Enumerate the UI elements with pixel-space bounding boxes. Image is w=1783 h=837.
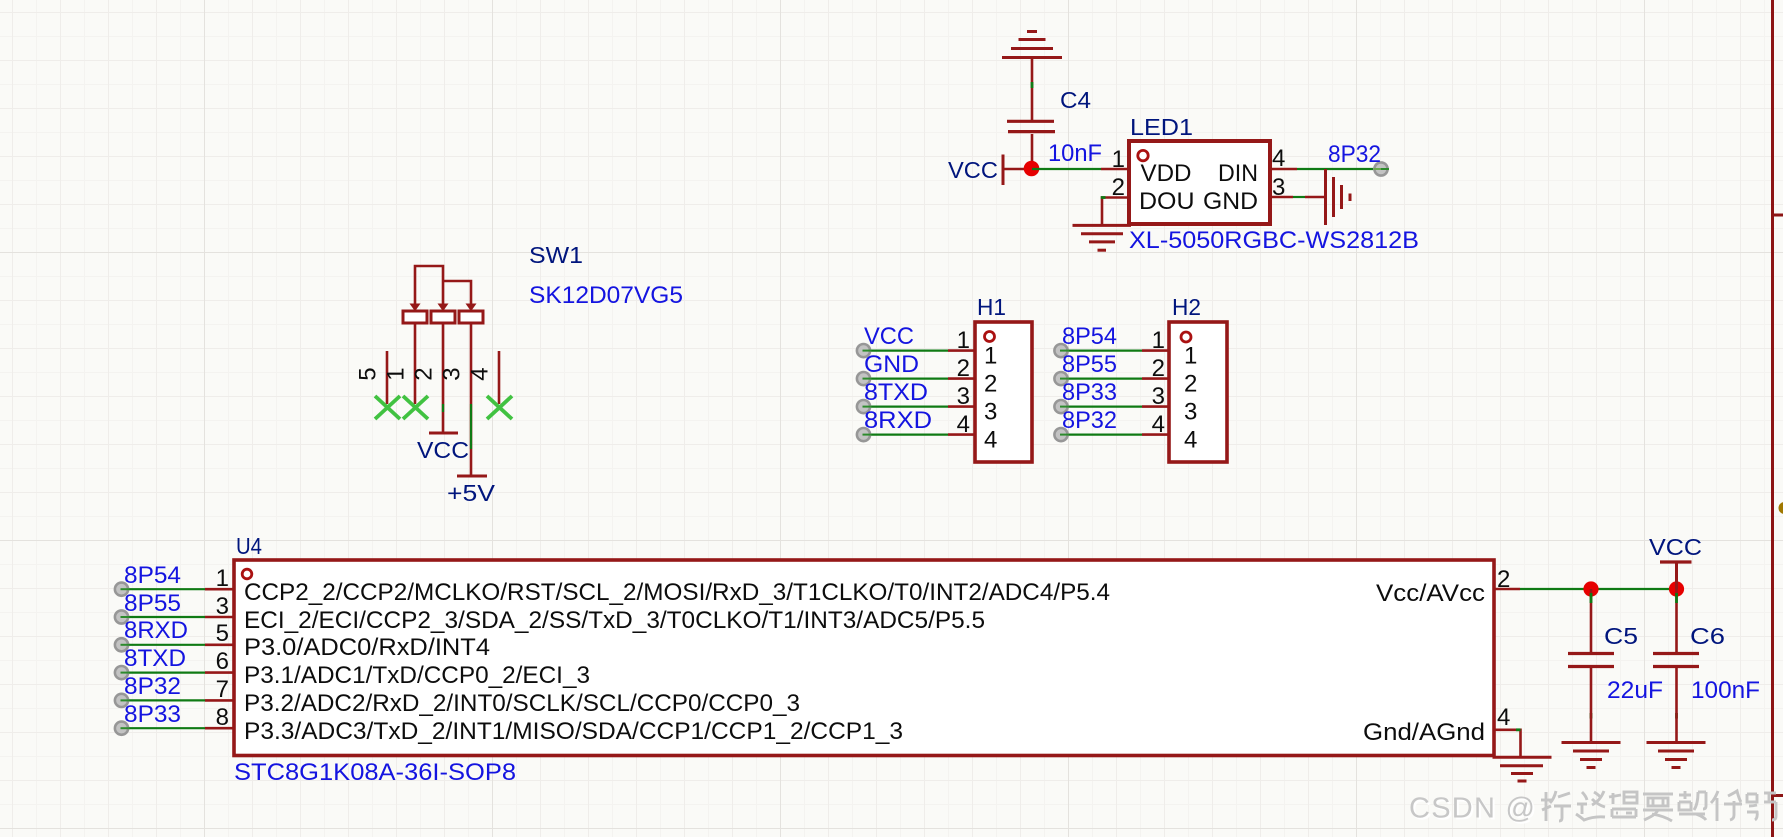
svg-text:8P55: 8P55 bbox=[1062, 351, 1117, 378]
net label 8P32 (U4-7) bbox=[124, 673, 181, 700]
svg-text:8: 8 bbox=[216, 704, 229, 731]
svg-text:4: 4 bbox=[1152, 411, 1165, 438]
label 10nF bbox=[1048, 140, 1102, 167]
SW1 pin number 1 bbox=[383, 367, 410, 380]
svg-text:4: 4 bbox=[984, 427, 997, 454]
svg-text:8P33: 8P33 bbox=[124, 701, 181, 728]
wire LED1 pin2 to ground bbox=[1101, 198, 1129, 226]
svg-text:5: 5 bbox=[216, 620, 229, 647]
label H1 bbox=[977, 294, 1006, 320]
H2 pin 1 wire 8P54 bbox=[1054, 344, 1169, 357]
label C6 bbox=[1690, 623, 1725, 649]
svg-text:8RXD: 8RXD bbox=[864, 407, 932, 434]
svg-text:6: 6 bbox=[216, 648, 229, 675]
hanzi 折 bbox=[1541, 791, 1571, 821]
svg-text:8TXD: 8TXD bbox=[864, 379, 928, 406]
svg-text:1: 1 bbox=[216, 565, 229, 592]
SW1 pin number 3 bbox=[439, 367, 466, 380]
H2 pin 2 wire 8P55 bbox=[1054, 372, 1169, 385]
svg-text:3: 3 bbox=[439, 367, 466, 380]
U4 pin name Vcc/AVcc bbox=[1376, 580, 1485, 607]
svg-text:8P55: 8P55 bbox=[124, 590, 181, 617]
H1 pin number 2 outer bbox=[957, 355, 970, 382]
U4 pin number 1 bbox=[216, 565, 229, 592]
SW1 pin number 5 bbox=[355, 367, 382, 380]
svg-text:8P32: 8P32 bbox=[1328, 141, 1381, 168]
pin name VDD bbox=[1141, 160, 1192, 187]
U4 pin number 2 bbox=[1497, 566, 1510, 593]
SW1 pin 3 wire to +5V bbox=[470, 323, 473, 476]
svg-text:7: 7 bbox=[216, 676, 229, 703]
net label GND (H1-2) bbox=[864, 351, 919, 378]
SW1 pin 2 wire to VCC bbox=[442, 323, 445, 433]
header H2 bbox=[1169, 322, 1227, 462]
svg-text:2: 2 bbox=[411, 367, 438, 380]
port VCC (left of C4 junction) bbox=[948, 155, 1032, 186]
pin name DOU bbox=[1139, 188, 1195, 215]
U4 pin name row 5 bbox=[244, 690, 800, 717]
hanzi 码 bbox=[1747, 793, 1776, 820]
H1 pin number 3 inner bbox=[984, 399, 997, 426]
U4 pin number 5 bbox=[216, 620, 229, 647]
SW1 pin number 2 bbox=[411, 367, 438, 380]
header H1 bbox=[975, 322, 1032, 462]
H2 pin number 1 inner bbox=[1184, 343, 1197, 370]
H2 pin number 3 inner bbox=[1184, 399, 1197, 426]
H2 pin number 1 outer bbox=[1152, 327, 1165, 354]
net label 8P33 (U4-8) bbox=[124, 701, 181, 728]
label H2 bbox=[1172, 294, 1201, 320]
svg-text:4: 4 bbox=[957, 411, 970, 438]
wire U4 pin4 to ground bbox=[1494, 730, 1521, 756]
H1 pin number 4 inner bbox=[984, 427, 997, 454]
port VCC under SW1 bbox=[417, 433, 469, 463]
svg-text:2: 2 bbox=[1152, 355, 1165, 382]
U4 pin name row 2 bbox=[244, 607, 985, 634]
SW1 pin number 4 bbox=[467, 367, 494, 380]
svg-text:1: 1 bbox=[1112, 146, 1125, 173]
H1 pin number 3 outer bbox=[957, 383, 970, 410]
svg-text:GND: GND bbox=[864, 351, 919, 378]
svg-text:8P54: 8P54 bbox=[1062, 323, 1117, 350]
net label 8RXD (U4-5) bbox=[124, 617, 188, 644]
hanzi 想 bbox=[1609, 792, 1637, 817]
hanzi 代 bbox=[1711, 791, 1742, 821]
svg-text:100nF: 100nF bbox=[1691, 677, 1760, 704]
svg-text:VCC: VCC bbox=[948, 157, 998, 183]
capacitor C5 bbox=[1568, 589, 1614, 742]
U4 pin number 6 bbox=[216, 648, 229, 675]
svg-text:1: 1 bbox=[1184, 343, 1197, 370]
svg-text:STC8G1K08A-36I-SOP8: STC8G1K08A-36I-SOP8 bbox=[234, 759, 516, 786]
svg-text:VCC: VCC bbox=[1649, 534, 1702, 560]
pin-1 indicator H2 bbox=[1181, 332, 1191, 342]
wire U4 pin2 to VCC rail bbox=[1494, 588, 1676, 591]
wire LED1 pin3 to ground bbox=[1270, 196, 1325, 199]
hanzi 要 bbox=[1643, 794, 1673, 821]
pin number 2 bbox=[1112, 174, 1125, 201]
H2 pin 4 wire 8P32 bbox=[1054, 428, 1169, 441]
svg-text:H2: H2 bbox=[1172, 294, 1201, 320]
H1 pin 2 wire GND bbox=[857, 372, 975, 385]
SW1 pin 1 bbox=[414, 323, 417, 404]
label U4 bbox=[236, 533, 262, 559]
pin-1 indicator LED1 bbox=[1138, 150, 1148, 160]
svg-text:3: 3 bbox=[1184, 399, 1197, 426]
U4 pin name row 6 bbox=[244, 718, 903, 745]
pin number 1 bbox=[1112, 146, 1125, 173]
svg-text:8P33: 8P33 bbox=[1062, 379, 1117, 406]
svg-text:P3.3/ADC3/TxD_2/INT1/MISO/SDA/: P3.3/ADC3/TxD_2/INT1/MISO/SDA/CCP1/CCP1_… bbox=[244, 718, 903, 745]
svg-text:10nF: 10nF bbox=[1048, 140, 1102, 167]
label STC8G1K08A-36I-SOP8 bbox=[234, 759, 516, 786]
net label 8P32 (H2-4) bbox=[1062, 407, 1117, 434]
pin number 4 bbox=[1272, 145, 1285, 172]
pin name DIN bbox=[1218, 160, 1258, 187]
svg-text:GND: GND bbox=[1203, 188, 1258, 215]
svg-text:2: 2 bbox=[957, 355, 970, 382]
pin name GND bbox=[1203, 188, 1258, 215]
junction A (VCC / C4) bbox=[1024, 161, 1040, 177]
U4 pin name row 1 bbox=[244, 579, 1110, 606]
U4 pin name Gnd/AGnd bbox=[1363, 719, 1485, 746]
H2 pin number 2 inner bbox=[1184, 371, 1197, 398]
svg-text:4: 4 bbox=[467, 367, 494, 380]
H1 pin 1 wire VCC bbox=[857, 344, 975, 357]
pin-1 indicator U4 bbox=[242, 569, 252, 579]
ground at C5 bbox=[1562, 743, 1621, 768]
svg-text:CCP2_2/CCP2/MCLKO/RST/SCL_2/MO: CCP2_2/CCP2/MCLKO/RST/SCL_2/MOSI/RxD_3/T… bbox=[244, 579, 1110, 606]
svg-text:P3.1/ADC1/TxD/CCP0_2/ECI_3: P3.1/ADC1/TxD/CCP0_2/ECI_3 bbox=[244, 662, 590, 689]
SW1 pin 5 bbox=[386, 351, 389, 404]
net label VCC (H1-1) bbox=[864, 323, 914, 350]
junction C5 rail bbox=[1583, 581, 1598, 596]
ground at U4 pin4 bbox=[1493, 757, 1552, 781]
svg-text:C6: C6 bbox=[1690, 623, 1725, 649]
label LED1 bbox=[1130, 114, 1193, 140]
svg-text:P3.0/ADC0/RxD/INT4: P3.0/ADC0/RxD/INT4 bbox=[244, 634, 490, 661]
capacitor C6 bbox=[1653, 589, 1699, 742]
U4 pin 3 wire 8P55 bbox=[115, 610, 234, 623]
SW1 pin 4 bbox=[498, 351, 501, 404]
svg-text:4: 4 bbox=[1497, 704, 1510, 731]
U4 pin number 4 bbox=[1497, 704, 1510, 731]
no-connect X pin1 bbox=[403, 396, 428, 419]
label 22uF bbox=[1607, 677, 1663, 704]
U4 pin name row 3 bbox=[244, 634, 490, 661]
svg-text:CSDN @: CSDN @ bbox=[1409, 793, 1535, 825]
label C4 bbox=[1060, 87, 1091, 113]
switch SW1 slider boxes bbox=[403, 311, 483, 323]
IC U4 box bbox=[234, 560, 1494, 756]
svg-text:DOU: DOU bbox=[1139, 188, 1195, 215]
svg-text:1: 1 bbox=[984, 343, 997, 370]
ground at LED1 pin3 (rotated) bbox=[1326, 169, 1351, 225]
svg-text:C5: C5 bbox=[1604, 623, 1638, 649]
svg-text:2: 2 bbox=[1184, 371, 1197, 398]
U4 pin number 3 bbox=[216, 593, 229, 620]
U4 pin name row 4 bbox=[244, 662, 590, 689]
switch SW1 arrows bbox=[410, 304, 477, 312]
label C5 bbox=[1604, 623, 1638, 649]
wire VCC to LED1 pin1 bbox=[1032, 168, 1129, 170]
pin-1 indicator H1 bbox=[985, 332, 995, 342]
H2 pin number 4 inner bbox=[1184, 427, 1197, 454]
U4 pin number 7 bbox=[216, 676, 229, 703]
ground at LED1 pin2 bbox=[1073, 225, 1132, 250]
ground at C6 bbox=[1647, 743, 1706, 768]
net label 8RXD (H1-4) bbox=[864, 407, 932, 434]
svg-text:H1: H1 bbox=[977, 294, 1006, 320]
svg-text:8TXD: 8TXD bbox=[124, 645, 186, 672]
svg-text:Gnd/AGnd: Gnd/AGnd bbox=[1363, 719, 1485, 746]
net label 8P55 (H2-2) bbox=[1062, 351, 1117, 378]
ground (earth, flipped) above C4 bbox=[1002, 32, 1062, 121]
svg-text:4: 4 bbox=[1184, 427, 1197, 454]
svg-text:3: 3 bbox=[984, 399, 997, 426]
svg-text:Vcc/AVcc: Vcc/AVcc bbox=[1376, 580, 1485, 607]
sheet border right bbox=[1773, 0, 1783, 837]
U4 pin 1 wire 8P54 bbox=[115, 583, 234, 596]
net label 8P32 bbox=[1328, 141, 1381, 168]
LED1 box bbox=[1129, 141, 1270, 224]
switch SW1 top linkage bbox=[415, 266, 471, 304]
pin number 3 bbox=[1272, 174, 1285, 201]
H2 pin number 2 outer bbox=[1152, 355, 1165, 382]
svg-text:ECI_2/ECI/CCP2_3/SDA_2/SS/TxD_: ECI_2/ECI/CCP2_3/SDA_2/SS/TxD_3/T0CLKO/T… bbox=[244, 607, 985, 634]
U4 pin 7 wire 8P32 bbox=[115, 694, 234, 707]
svg-text:8RXD: 8RXD bbox=[124, 617, 188, 644]
net label 8P54 (U4-1) bbox=[124, 562, 181, 589]
unconnected pad 8P32 bbox=[1374, 162, 1389, 175]
svg-text:SK12D07VG5: SK12D07VG5 bbox=[529, 282, 683, 309]
svg-text:3: 3 bbox=[1152, 383, 1165, 410]
svg-text:2: 2 bbox=[984, 371, 997, 398]
wire LED1 pin4 to 8P32 bbox=[1270, 168, 1374, 171]
label 100nF bbox=[1691, 677, 1760, 704]
svg-text:1: 1 bbox=[957, 327, 970, 354]
svg-text:SW1: SW1 bbox=[529, 242, 583, 268]
svg-text:VDD: VDD bbox=[1141, 160, 1192, 187]
net label 8P54 (H2-1) bbox=[1062, 323, 1117, 350]
svg-text:3: 3 bbox=[957, 383, 970, 410]
H1 pin number 1 outer bbox=[957, 327, 970, 354]
svg-text:VCC: VCC bbox=[864, 323, 914, 350]
port +5V under SW1 bbox=[447, 476, 496, 506]
junction C6 rail bbox=[1669, 581, 1684, 596]
U4 pin 8 wire 8P33 bbox=[115, 722, 234, 735]
net label 8P55 (U4-3) bbox=[124, 590, 181, 617]
svg-text:XL-5050RGBC-WS2812B: XL-5050RGBC-WS2812B bbox=[1129, 227, 1419, 254]
port VCC (top right) bbox=[1649, 534, 1702, 589]
label XL-5050RGBC-WS2812B bbox=[1129, 227, 1419, 254]
svg-text:+5V: +5V bbox=[447, 480, 496, 506]
svg-text:VCC: VCC bbox=[417, 437, 469, 463]
svg-text:U4: U4 bbox=[236, 533, 262, 559]
svg-text:8P32: 8P32 bbox=[1062, 407, 1117, 434]
svg-text:1: 1 bbox=[1152, 327, 1165, 354]
net label 8P33 (H2-3) bbox=[1062, 379, 1117, 406]
capacitor C4 bbox=[1007, 121, 1055, 169]
H2 pin number 4 outer bbox=[1152, 411, 1165, 438]
svg-text:1: 1 bbox=[383, 367, 410, 380]
H2 pin number 3 outer bbox=[1152, 383, 1165, 410]
U4 pin number 8 bbox=[216, 704, 229, 731]
hanzi 敲 bbox=[1679, 791, 1706, 820]
U4 pin 5 wire 8RXD bbox=[115, 638, 234, 651]
H1 pin number 1 inner bbox=[984, 343, 997, 370]
svg-text:5: 5 bbox=[355, 367, 382, 380]
H2 pin 3 wire 8P33 bbox=[1054, 400, 1169, 413]
svg-text:P3.2/ADC2/RxD_2/INT0/SCLK/SCL/: P3.2/ADC2/RxD_2/INT0/SCLK/SCL/CCP0/CCP0_… bbox=[244, 690, 800, 717]
watermark hanzi (drawn strokes) bbox=[1541, 791, 1776, 821]
H1 pin number 2 inner bbox=[984, 371, 997, 398]
no-connect X pin5 bbox=[375, 396, 400, 419]
svg-text:22uF: 22uF bbox=[1607, 677, 1663, 704]
watermark CSDN bbox=[1409, 793, 1537, 827]
svg-text:C4: C4 bbox=[1060, 87, 1091, 113]
H1 pin number 4 outer bbox=[957, 411, 970, 438]
svg-text:8P32: 8P32 bbox=[124, 673, 181, 700]
svg-text:8P54: 8P54 bbox=[124, 562, 181, 589]
label SW1 bbox=[529, 242, 583, 268]
svg-text:3: 3 bbox=[216, 593, 229, 620]
svg-text:LED1: LED1 bbox=[1130, 114, 1193, 140]
no-connect X pin4 bbox=[487, 396, 512, 419]
hanzi 途 bbox=[1576, 791, 1605, 820]
net label 8TXD (U4-6) bbox=[124, 645, 186, 672]
svg-text:DIN: DIN bbox=[1218, 160, 1258, 187]
U4 pin 6 wire 8TXD bbox=[115, 666, 234, 679]
net label 8TXD (H1-3) bbox=[864, 379, 928, 406]
H1 pin 3 wire 8TXD bbox=[857, 400, 975, 413]
label SK12D07VG5 bbox=[529, 282, 683, 309]
H1 pin 4 wire 8RXD bbox=[857, 428, 975, 441]
